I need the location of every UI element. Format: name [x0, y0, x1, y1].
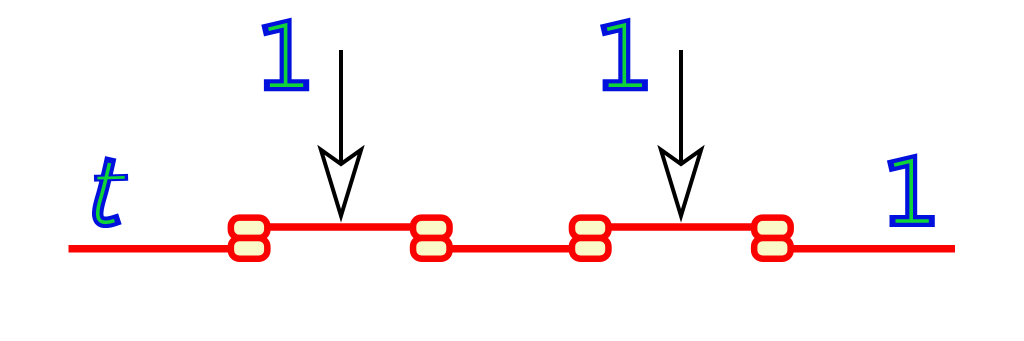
label 1 (above arrow 2) green core [607, 25, 642, 85]
arrow 1 head [321, 150, 361, 216]
arrow 2 head [661, 150, 701, 216]
node pair 4 top capsule [754, 218, 791, 238]
label t (left end) crossbar blue outline [97, 174, 124, 182]
wire lower-right segment [772, 245, 955, 253]
node pair 1 bottom capsule [231, 238, 268, 259]
label t (left end) stem blue outline [98, 163, 115, 222]
node pair 2 bottom capsule [413, 238, 450, 259]
wire lower-left segment [69, 245, 250, 253]
label 1 (above arrow 1) green core [269, 25, 304, 85]
label 1 (right end) blue outline [894, 161, 929, 221]
node pair 3 bottom capsule [572, 238, 609, 259]
arrow 2 shaft [679, 50, 683, 167]
wire upper segment 2 [590, 223, 772, 231]
node pair 1 top capsule [231, 218, 268, 238]
wire upper segment 1 [249, 223, 431, 231]
arrow 1 shaft [339, 50, 343, 167]
label 1 (above arrow 1) blue outline [269, 25, 304, 85]
label t (left end) stem green core [98, 163, 115, 222]
node pair 2 top capsule [413, 218, 450, 238]
label 1 (above arrow 2) blue outline [607, 25, 642, 85]
label 1 (right end) green core [894, 161, 929, 221]
node pair 4 bottom capsule [754, 238, 791, 259]
wire lower-middle segment [431, 245, 590, 253]
node pair 3 top capsule [572, 218, 609, 238]
label t (left end) crossbar green core [97, 176, 124, 180]
